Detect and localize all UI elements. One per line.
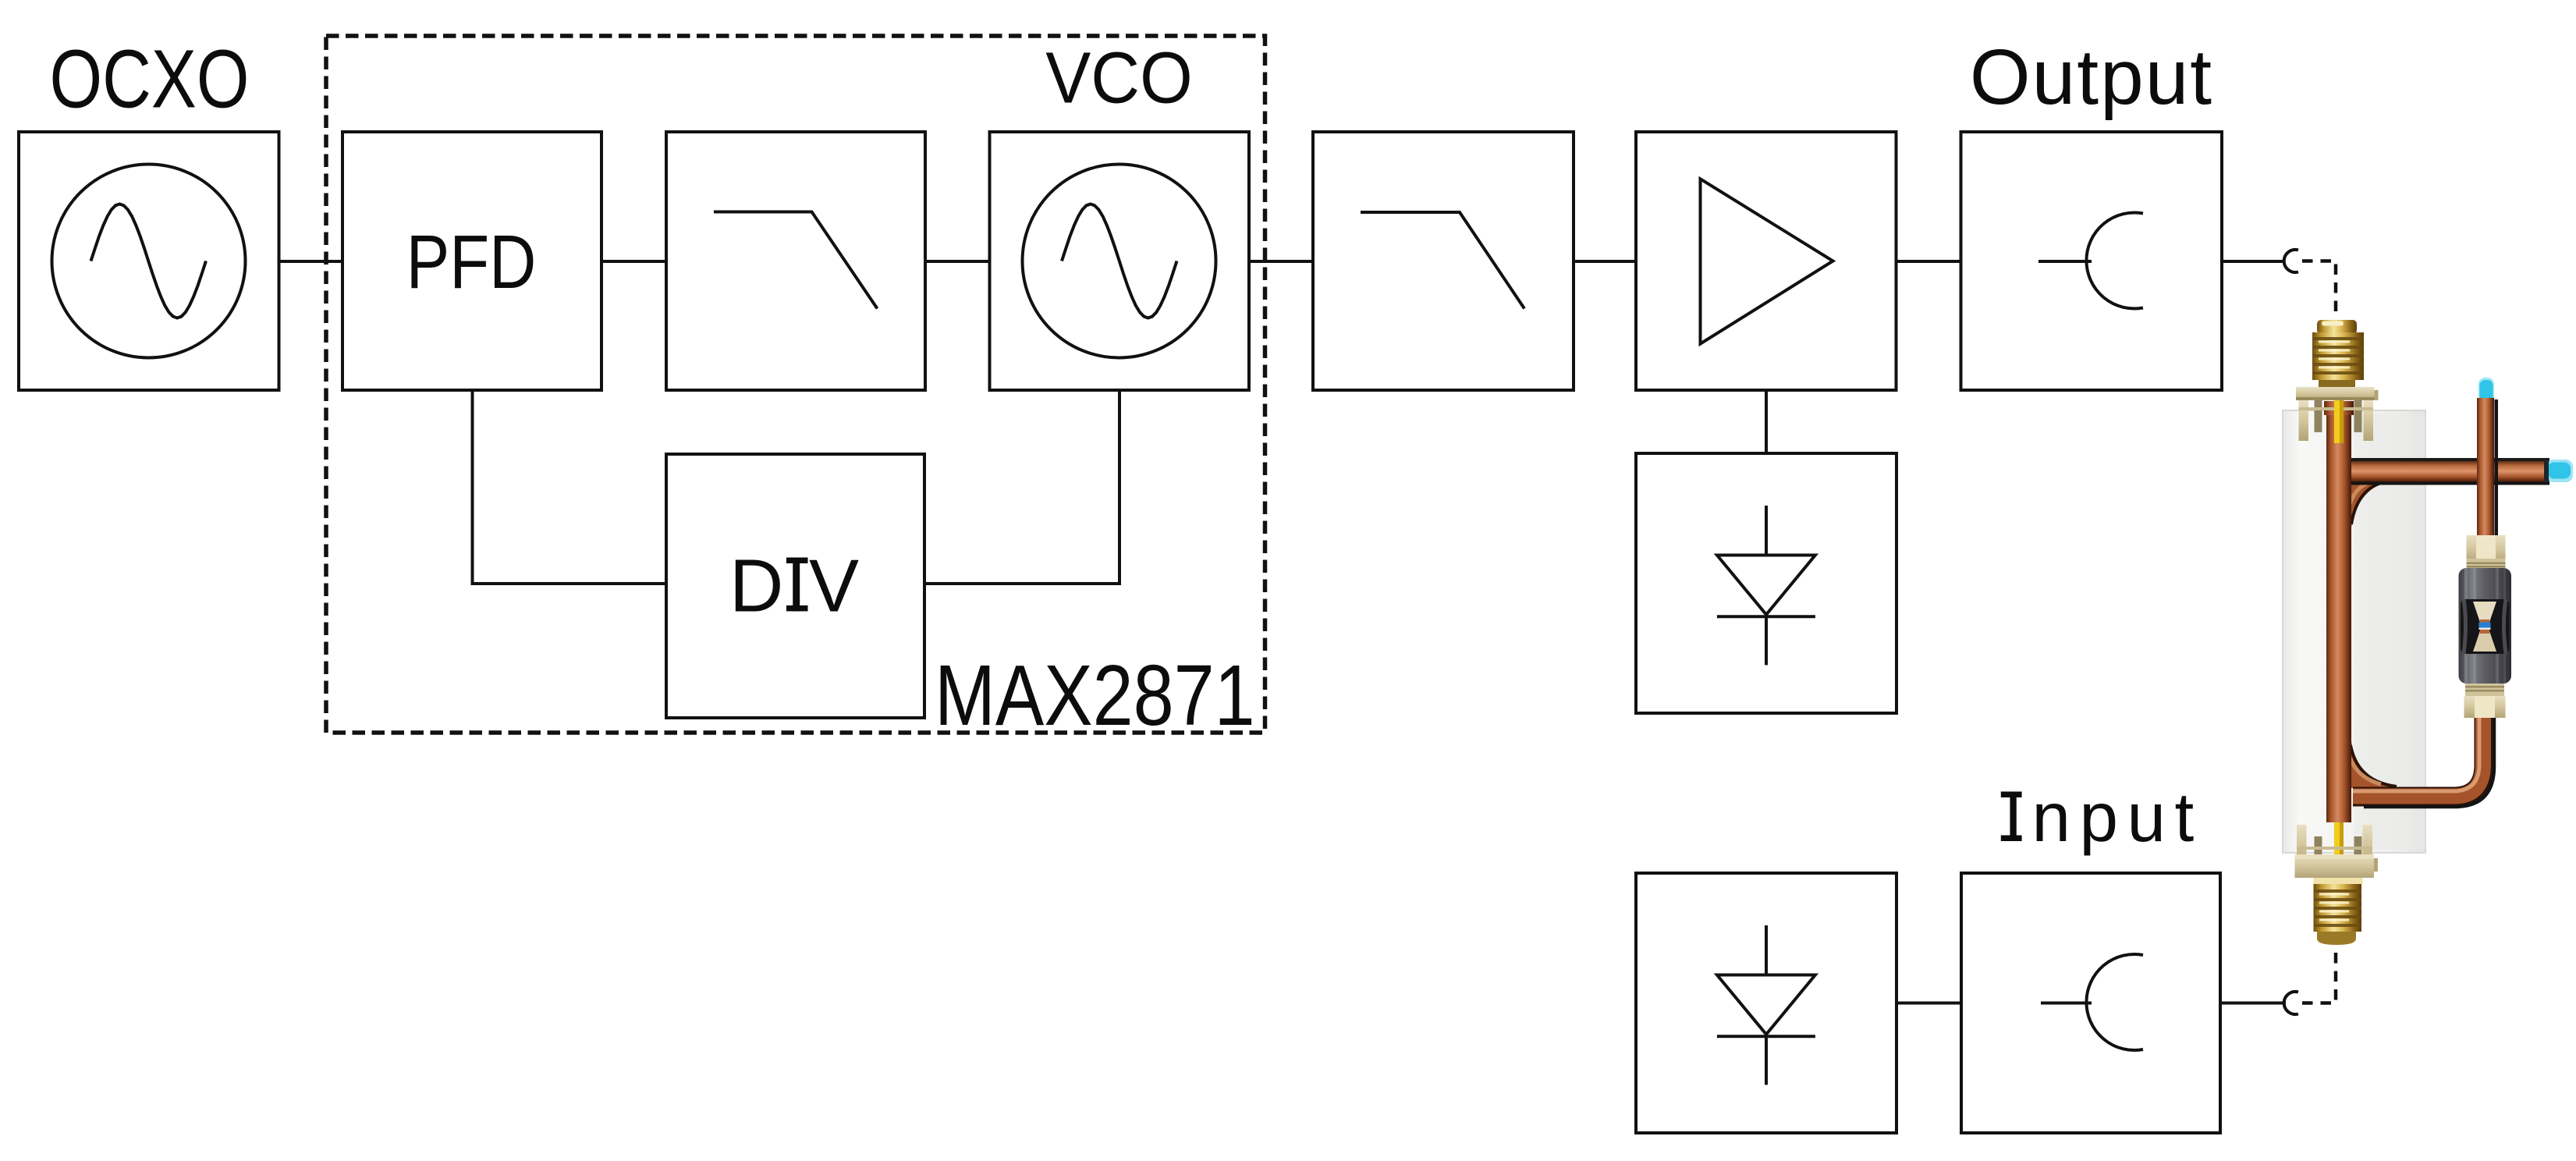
wire PFD feedback down <box>473 390 667 584</box>
svg-text:Output: Output <box>1970 34 2213 121</box>
resonator photo: lower coupling elbow <box>2342 741 2401 788</box>
block OCXO <box>19 132 279 390</box>
block DIV <box>666 454 924 718</box>
wire amplifier to detector <box>1765 390 1768 453</box>
connector arc input <box>2284 992 2298 1014</box>
block input coupler <box>1961 873 2220 1133</box>
resonator photo: upper coupling elbow (doubled pipe) <box>2342 479 2395 527</box>
dashed link output to resonator <box>2302 261 2336 318</box>
svg-text:OCXO: OCXO <box>50 32 250 125</box>
serif bars for capital I of DIV <box>786 558 808 564</box>
resonator photo: bottom SMA connector <box>2295 811 2379 945</box>
lowpass symbol 1 <box>714 212 878 309</box>
coupler probe line output <box>2038 260 2092 263</box>
resonator photo: main vertical copper pipe <box>2324 401 2354 822</box>
resonator photo: second vertical pipe with cyan tip <box>2477 378 2498 538</box>
wire amplifier to output coupler <box>1897 260 1961 263</box>
coupler probe line input <box>2041 1002 2092 1005</box>
block input detector <box>1636 873 1897 1133</box>
diode symbol detector 2 <box>1765 925 1768 975</box>
amplifier triangle <box>1701 179 1833 343</box>
resonator photo: top SMA connector <box>2296 320 2379 443</box>
block output coupler <box>1961 132 2223 390</box>
block output filter <box>1313 132 1574 390</box>
serif bars for capital I of Input <box>2001 792 2022 798</box>
oscillator circle OCXO <box>52 165 246 358</box>
dashed link input to resonator <box>2302 946 2336 1003</box>
resonator photo: attenuator hex nut top <box>2467 535 2506 569</box>
lowpass symbol 2 <box>1361 212 1524 309</box>
block PFD <box>342 132 601 390</box>
dashed enclosure MAX2871 <box>326 36 1265 733</box>
wire PFD to loop filter <box>601 260 666 263</box>
wire input coupler to connector <box>2220 1002 2286 1005</box>
diode symbol detector 1 <box>1765 506 1768 556</box>
sine wave VCO <box>1062 204 1177 318</box>
block VCO <box>990 132 1250 390</box>
block amplifier <box>1636 132 1897 390</box>
resonator photo: attenuator hex nut bottom <box>2464 683 2506 718</box>
wire OCXO to PFD <box>279 260 343 263</box>
block power detector <box>1636 453 1897 713</box>
wire VCO to output filter <box>1249 260 1313 263</box>
svg-text:MAX2871: MAX2871 <box>935 648 1255 744</box>
block loop filter <box>666 132 925 390</box>
wire VCO to DIV <box>925 390 1119 584</box>
coupler arc output <box>2086 213 2143 309</box>
svg-text:PFD: PFD <box>406 220 537 304</box>
connector arc output <box>2284 250 2298 272</box>
svg-text:VCO: VCO <box>1045 38 1192 119</box>
oscillator circle VCO <box>1023 165 1216 358</box>
coupler arc input <box>2086 954 2143 1050</box>
wire input detector to input coupler <box>1897 1002 1961 1005</box>
svg-text:Input: Input <box>2003 778 2202 856</box>
svg-text:DIV: DIV <box>729 544 861 627</box>
resonator photo: cyan tip right <box>2544 460 2573 482</box>
resonator photo: attenuator body <box>2459 568 2512 683</box>
wire output coupler to connector <box>2222 260 2286 263</box>
resonator photo: upper horizontal pipe <box>2344 458 2549 485</box>
sine wave OCXO <box>91 204 207 318</box>
resonator photo: PCB slab <box>2283 410 2425 853</box>
wire output filter to amplifier <box>1574 260 1636 263</box>
wire loop filter to VCO <box>925 260 990 263</box>
